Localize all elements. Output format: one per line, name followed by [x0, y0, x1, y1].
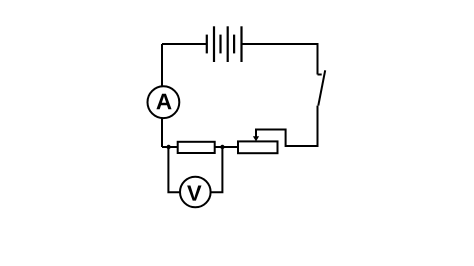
wire top-right (battery positive to switch): [242, 44, 318, 75]
switch S1 (open): [318, 70, 326, 105]
wire right side (switch to rheostat wiper): [256, 106, 318, 146]
rheostat wiper arrowhead: [253, 136, 259, 141]
wire voltmeter right branch: [210, 147, 222, 192]
wire resistor to ammeter branch: [162, 146, 178, 148]
battery B1 (three cells): [207, 26, 242, 62]
wire ammeter upper lead: [161, 44, 163, 86]
wire voltmeter left branch: [168, 147, 180, 192]
voltmeter V1: [180, 177, 211, 208]
ammeter A1: [148, 86, 180, 118]
wire top-left (battery negative to ammeter branch): [162, 43, 207, 45]
node A (junction dot left): [166, 145, 170, 149]
node B (junction dot right): [220, 145, 224, 149]
wire rheostat to resistor: [215, 146, 238, 148]
resistor R1: [178, 142, 215, 153]
wire ammeter lower lead: [161, 118, 163, 147]
rheostat R2 (variable resistor body): [238, 141, 278, 153]
